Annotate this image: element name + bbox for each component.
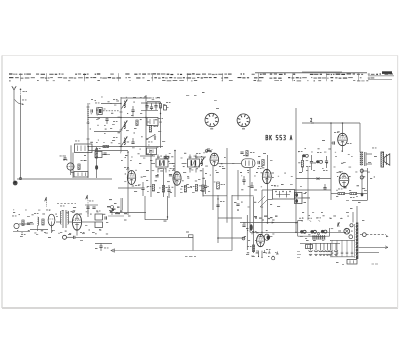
resistor R13 xyxy=(190,185,198,192)
resistor R24 xyxy=(350,192,357,198)
junction top cluster xyxy=(146,102,156,103)
faint text marks left of row xyxy=(297,251,301,258)
wire y196 xyxy=(203,195,254,197)
wire y156 seg xyxy=(140,155,155,157)
capacitor C13 xyxy=(167,185,170,198)
dashed align line xyxy=(57,203,76,205)
band switch cluster xyxy=(312,233,326,240)
wire rail x362 xyxy=(360,168,363,196)
wire antenna down-lead xyxy=(13,96,15,181)
resistor R11 xyxy=(162,186,170,193)
electrolytic C31 xyxy=(314,243,318,255)
wire y103 xyxy=(101,103,121,105)
wire rail x367 xyxy=(367,168,369,200)
page right edge xyxy=(397,56,399,309)
capacitor C7 xyxy=(154,98,160,111)
mains lead 3 xyxy=(359,251,379,253)
band coil L1 xyxy=(113,99,128,109)
resistor R21 xyxy=(323,156,328,171)
cluster left of loop box xyxy=(109,199,118,215)
capacitor C9 xyxy=(60,155,67,159)
wire y222 bus xyxy=(240,222,298,224)
value annotation specks xyxy=(13,92,377,265)
power transformer leads xyxy=(350,202,361,223)
label A right xyxy=(86,195,88,205)
lamp LA2 xyxy=(350,224,353,227)
capacitor C18b xyxy=(250,182,253,187)
wire AM links xyxy=(19,210,95,236)
capacitor C3c xyxy=(105,118,108,125)
grid stubs xyxy=(126,149,213,171)
sheet number xyxy=(372,264,379,265)
mains lead 2 xyxy=(359,246,388,249)
cap bank C40 xyxy=(330,240,355,256)
ground marks below B9 xyxy=(256,250,279,254)
parts list text band xyxy=(9,71,394,81)
small marks left rail xyxy=(84,155,87,161)
AF coupling caps xyxy=(316,152,323,163)
wire riser x88b xyxy=(87,205,89,214)
mixer coil arrow xyxy=(196,153,205,167)
drawing number text xyxy=(185,256,196,257)
trimmer T2 xyxy=(308,218,317,234)
tube B1 triode xyxy=(63,160,74,176)
tube B4 mixer xyxy=(207,150,224,167)
right amp clutter (value labels) xyxy=(298,148,375,191)
resistor R12 xyxy=(184,186,192,193)
tube B2 IF amp xyxy=(124,167,140,186)
wire y178 right xyxy=(296,177,331,180)
trimmer T1 xyxy=(299,218,306,234)
resistor R3a xyxy=(136,120,138,126)
pickup jack G xyxy=(63,235,67,239)
wire y193 right xyxy=(331,193,367,195)
electrolytic C32 xyxy=(319,243,323,255)
wire rail x262 xyxy=(261,208,263,236)
wire B9 leads xyxy=(258,251,263,259)
wire rail x247 xyxy=(246,215,248,250)
wire rail x250 xyxy=(249,168,251,232)
resistor R20 xyxy=(298,151,308,172)
wire rail x218 xyxy=(217,195,219,243)
cluster above B9 xyxy=(254,216,278,221)
wire y117 xyxy=(88,117,146,119)
wire y243 right bus xyxy=(300,242,340,244)
capacitor C12 xyxy=(141,182,144,196)
power transformer core xyxy=(356,223,358,260)
capacitor cluster above B8 xyxy=(85,201,98,209)
wire y250 bottom bus xyxy=(111,249,232,252)
wire antenna bus xyxy=(17,178,112,180)
capacitor C14 xyxy=(204,180,207,194)
wire rail x211 xyxy=(212,166,214,210)
tube B8 oval xyxy=(71,211,85,233)
box cluster right of B8 xyxy=(95,211,106,228)
output transformer S5 xyxy=(360,152,366,166)
wire y237 xyxy=(75,236,193,238)
wire y238 seg xyxy=(218,237,245,239)
antenna plug P1 xyxy=(13,181,18,186)
label A left xyxy=(45,197,47,207)
wire box links xyxy=(151,163,203,165)
tube socket view B2 xyxy=(237,114,250,129)
band coil L3 xyxy=(113,137,128,146)
capacitor C3a xyxy=(131,106,134,115)
wire y110 bottom xyxy=(141,109,158,111)
switch S1a xyxy=(146,134,156,142)
wire rail x253 xyxy=(253,197,255,254)
tube B3 IF amp xyxy=(170,168,186,187)
tube B9 detector xyxy=(252,231,271,250)
plug P2 xyxy=(19,178,21,180)
wire rail x296 xyxy=(295,108,297,232)
wire y232 bus xyxy=(250,231,346,233)
capacitor C20 xyxy=(306,155,313,170)
wire y172 osc xyxy=(71,145,74,172)
resistor R2 xyxy=(149,126,158,133)
marks near B9 xyxy=(242,228,248,240)
electrolytic C35 xyxy=(329,243,333,255)
junction dots IF xyxy=(127,150,176,153)
AM coil L5 xyxy=(34,213,44,231)
resistor R5 xyxy=(159,102,161,148)
tube B5 output xyxy=(334,131,352,145)
IF trafo leads xyxy=(158,155,196,173)
wire rail x200 xyxy=(202,168,204,197)
resistor R15 xyxy=(240,151,254,157)
power clutter (value labels) xyxy=(302,215,353,235)
electrolytic C30 xyxy=(309,243,313,255)
tube B10 AF amp xyxy=(258,166,276,186)
wire rail x88 xyxy=(87,103,89,178)
antenna A1 xyxy=(12,86,16,96)
page left edge xyxy=(1,56,3,309)
wire rail x267 xyxy=(267,155,269,223)
component at 100 247 xyxy=(95,243,109,251)
switch contact cluster A xyxy=(107,198,167,222)
wire y212 seg xyxy=(110,212,146,214)
trimmer block mid xyxy=(147,118,163,126)
capacitor C16 xyxy=(195,157,264,169)
wire rail x360 xyxy=(359,123,361,152)
resistor R7 xyxy=(78,160,85,170)
wire y229 left xyxy=(30,229,48,231)
loop box left wire xyxy=(145,196,168,220)
AM transformer S6 xyxy=(60,206,69,229)
wire y146 xyxy=(88,146,163,148)
wire y188 seg xyxy=(118,187,143,189)
wire y131 xyxy=(94,131,121,133)
tube B7 small xyxy=(46,210,55,229)
wire y200 right xyxy=(352,171,368,201)
wire rail x331 xyxy=(330,123,332,200)
capacitor C3b xyxy=(131,138,134,143)
capacitor C17 xyxy=(216,198,224,206)
wire rail x227 xyxy=(226,148,228,223)
page bottom edge xyxy=(2,307,398,309)
wire rail x73 xyxy=(72,153,74,179)
band coil L2 xyxy=(113,121,128,130)
fuse box xyxy=(347,260,357,265)
switch unit outline xyxy=(298,221,330,237)
box small el xyxy=(306,245,313,249)
wire y98 top xyxy=(121,97,150,99)
wire rail x151 xyxy=(150,150,152,197)
tick marks rail x88 xyxy=(87,107,90,139)
wire y123 xyxy=(302,122,360,124)
label BK 553 A xyxy=(266,135,292,140)
component cluster x95 xyxy=(95,148,110,158)
end comp y237 xyxy=(186,232,193,251)
wire rail x163 xyxy=(163,168,165,197)
electrolytic C36 xyxy=(334,243,338,255)
resistor R23 xyxy=(338,189,345,195)
power transformer winding xyxy=(353,224,356,258)
tube socket view B1 xyxy=(205,113,218,129)
resistor R15b xyxy=(217,182,225,189)
small box lower xyxy=(147,148,157,155)
AM coil cluster far left xyxy=(12,216,30,235)
capacitor C1 with resistor R1 xyxy=(91,103,119,119)
wire speaker link xyxy=(366,154,372,164)
resistor R3b xyxy=(103,145,109,147)
label K xyxy=(338,223,340,227)
capacitor C5 xyxy=(143,98,149,111)
oscillator box xyxy=(75,141,93,153)
coil near B9 left xyxy=(242,223,252,231)
trimmer T3 xyxy=(317,217,327,233)
mains lead dashed xyxy=(366,235,388,238)
capacitor C18a xyxy=(242,176,245,185)
label 2 xyxy=(311,118,315,123)
wire y218 seg xyxy=(218,217,242,219)
wire rail x238 xyxy=(234,170,240,211)
mains plug xyxy=(360,233,366,237)
wire y199 seg xyxy=(268,199,273,201)
wire rail x121 xyxy=(120,97,122,152)
page top edge xyxy=(2,55,398,57)
detector clutter (value labels) xyxy=(241,172,293,257)
junction dots buses xyxy=(217,122,343,239)
IF transformer S2 xyxy=(156,157,168,170)
switch bank SB xyxy=(273,186,295,200)
IF strip clutter (value labels) xyxy=(120,152,223,189)
ratio detector box xyxy=(295,193,311,204)
wire rail x146 xyxy=(145,95,147,155)
wire y190 seg xyxy=(262,190,296,208)
FM block clutter (value labels) xyxy=(89,96,162,149)
resistor R11a xyxy=(164,156,169,158)
tick marks rail x121 xyxy=(120,112,123,147)
IF transformer S3 xyxy=(188,157,200,170)
osc coil box xyxy=(74,172,88,178)
wire rail x175 xyxy=(174,150,176,197)
AM row clutter (value labels) xyxy=(13,209,112,234)
wire rail x128 xyxy=(124,152,131,217)
small circle below B9 xyxy=(272,257,275,260)
resistor R8 rail xyxy=(95,147,98,178)
lamp LA3 xyxy=(349,235,353,239)
wire y103 top xyxy=(141,102,160,103)
capacitor C11a xyxy=(155,176,158,177)
wire antenna second lead xyxy=(15,96,27,179)
capacitor C11b xyxy=(169,175,172,176)
capacitor C25 xyxy=(67,236,75,239)
resistor R30 xyxy=(247,245,255,252)
resistor R10 xyxy=(147,185,155,192)
small comp right xyxy=(164,102,171,110)
wire rail x232 xyxy=(231,195,233,251)
capacitor C6 xyxy=(150,98,155,111)
switch bank out wires xyxy=(295,184,332,198)
antenna trim mark xyxy=(20,89,27,97)
wire y150 xyxy=(88,150,128,152)
electrolytic C34 xyxy=(326,243,330,255)
junction dots FM xyxy=(87,103,146,147)
tube B6 xyxy=(337,171,349,187)
capacitor C22 xyxy=(343,187,346,188)
diag leads xyxy=(258,196,267,207)
IF can horizontal xyxy=(242,155,256,167)
wire y243 seg xyxy=(95,243,112,245)
wire y152 top xyxy=(205,149,211,152)
electrolytic C33 xyxy=(322,243,326,255)
dial lamp LA1 xyxy=(344,228,350,234)
wire rail x308 xyxy=(307,166,309,220)
wire tube B5 top xyxy=(322,123,343,152)
speaker LS xyxy=(372,148,390,168)
